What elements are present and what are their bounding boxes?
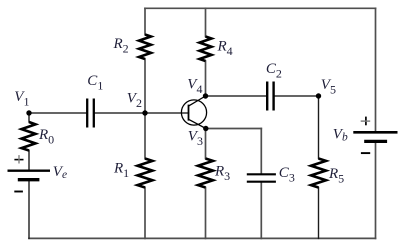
node V3 junction dot xyxy=(203,126,208,131)
capacitor C1 xyxy=(87,99,94,128)
wire V3 to C3 branch xyxy=(206,128,261,130)
wire V4 to C2 xyxy=(206,95,267,97)
capacitor C2 xyxy=(267,82,273,111)
wire R1 to bottom rail xyxy=(144,188,146,239)
battery Vb plus sign xyxy=(365,117,367,126)
wire V3 to R3 xyxy=(205,129,207,159)
resistor R2 xyxy=(139,35,151,60)
node V2 junction dot xyxy=(142,110,147,115)
wire Ve bottom plate to bottom rail xyxy=(28,181,30,238)
wire V5 to R5 xyxy=(318,96,320,159)
battery Vb minus sign xyxy=(361,152,370,154)
battery Ve minus sign xyxy=(14,191,23,193)
wire V1 to R0 xyxy=(28,113,30,122)
wire bottom rail xyxy=(29,237,376,239)
wire R2 branch upper xyxy=(144,8,146,34)
wire V2 to transistor base xyxy=(145,112,188,114)
resistor R5 xyxy=(311,159,326,188)
transistor Q1 base bar xyxy=(188,105,190,121)
wire right vertical to Vb top plate xyxy=(375,8,377,131)
capacitor C3 xyxy=(247,174,276,181)
wire V1 to C1 xyxy=(29,112,86,114)
wire R4 branch lower to V4 xyxy=(205,61,207,96)
wire C3 bottom plate to bottom rail xyxy=(260,183,262,239)
transistor Q1 emitter lead xyxy=(188,119,206,128)
wire Vb bottom plate to bottom rail xyxy=(375,142,377,238)
wire R3 to bottom rail xyxy=(205,188,207,239)
wire C3 branch down to top plate xyxy=(260,129,262,174)
battery Vb xyxy=(353,132,397,141)
resistor R4 xyxy=(200,37,212,62)
node V1 junction dot xyxy=(26,110,31,115)
wire R5 to bottom rail xyxy=(318,188,320,239)
wire R0 to Ve top plate xyxy=(28,151,30,171)
resistor R3 xyxy=(198,159,213,188)
wire R4 branch upper xyxy=(205,8,207,36)
resistor R1 xyxy=(138,159,153,188)
node V5 junction dot xyxy=(316,93,321,98)
wire top rail xyxy=(145,7,376,9)
wire V2 to R1 xyxy=(144,113,146,159)
wire C2 to V5 xyxy=(275,95,319,97)
resistor R0 xyxy=(22,122,36,151)
transistor Q1 collector lead xyxy=(188,96,205,106)
battery Ve xyxy=(8,171,51,180)
transistor Q1 circle xyxy=(181,100,206,125)
battery Ve plus sign xyxy=(14,159,23,161)
wire R2 branch lower to V2 xyxy=(144,59,146,113)
wire C1 to V2 xyxy=(95,112,145,114)
node V4 junction dot xyxy=(203,93,208,98)
